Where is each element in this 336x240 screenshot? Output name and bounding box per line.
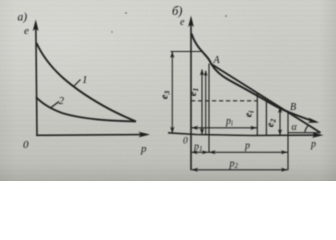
angle horizontal reference from B drop	[288, 132, 321, 134]
speck top middle	[125, 12, 127, 14]
e-axis (right plot)	[190, 19, 192, 170]
svg-text:A: A	[213, 55, 221, 66]
curve 2 (left plot adiabat)	[36, 97, 136, 121]
speck right of a-plot	[111, 31, 112, 32]
p2 right arrow	[281, 168, 288, 172]
e-axis arrowhead (left plot)	[33, 20, 39, 32]
dashed horizontal at ei level	[191, 100, 257, 102]
p1 left arrow	[192, 150, 198, 154]
e-axis arrowhead (right plot)	[188, 16, 194, 28]
horizontal reference line at e3 level	[171, 51, 203, 53]
svg-text:B: B	[290, 102, 296, 113]
p-axis (right plot)	[168, 133, 320, 136]
svg-text:p: p	[310, 139, 316, 150]
speck near b top	[225, 15, 227, 17]
e1 dimension line	[201, 70, 203, 135]
svg-text:1: 1	[82, 74, 88, 86]
curve end arrowhead (right plot)	[308, 118, 320, 123]
svg-text:α: α	[292, 122, 298, 133]
pi left arrow	[192, 126, 199, 130]
auxiliary dimension vertical near A	[205, 71, 207, 135]
p-axis arrowhead (right plot)	[312, 132, 324, 138]
e2 top arrow	[278, 107, 282, 113]
label 2 leader	[51, 102, 59, 108]
vertical from curve (ei boundary)	[265, 102, 267, 136]
vertical at pi from chord	[256, 94, 258, 136]
label 1 leader	[74, 80, 81, 87]
svg-text:а): а)	[18, 12, 28, 24]
row1 dimension line p segment	[209, 151, 289, 153]
vertical drop from A (p1 boundary)	[208, 64, 210, 153]
e-axis (left plot)	[36, 23, 37, 136]
svg-text:б): б)	[172, 4, 182, 18]
pi dimension line	[191, 127, 257, 129]
svg-text:p: p	[140, 143, 147, 155]
svg-text:2: 2	[59, 95, 65, 107]
chord A-B (straight line)	[212, 64, 321, 133]
angle alpha arc	[305, 126, 308, 132]
svg-text:e: e	[24, 25, 29, 37]
svg-text:0: 0	[23, 139, 29, 151]
e1 bottom arrow	[200, 128, 204, 135]
curve 1 (left plot isotherm)	[37, 43, 137, 122]
e2 bottom arrow	[278, 129, 282, 135]
curve (right plot) from axis through A and B with end arrow	[192, 34, 316, 122]
e1 top arrow	[200, 69, 204, 76]
pi right arrow	[250, 126, 256, 130]
p seg right arrow	[281, 150, 288, 154]
vertical drop from B	[287, 113, 289, 171]
e3 dimension line	[171, 52, 173, 133]
p-axis arrowhead (left plot)	[139, 132, 151, 138]
p1 right arrow	[202, 150, 208, 154]
e3 bottom arrow	[170, 127, 174, 134]
p2 left arrow	[192, 168, 199, 172]
e2 dimension line	[279, 108, 281, 136]
row1 dimension line p1 segment	[191, 151, 209, 153]
svg-text:p: p	[244, 141, 250, 152]
svg-text:e: e	[180, 17, 185, 28]
p-axis (left plot)	[36, 134, 147, 137]
e3 top arrow	[170, 52, 174, 59]
svg-text:0: 0	[183, 137, 188, 147]
row2 dimension line p2	[191, 169, 288, 171]
auxiliary dimension top arrow	[204, 70, 208, 76]
p seg left arrow	[209, 150, 216, 154]
